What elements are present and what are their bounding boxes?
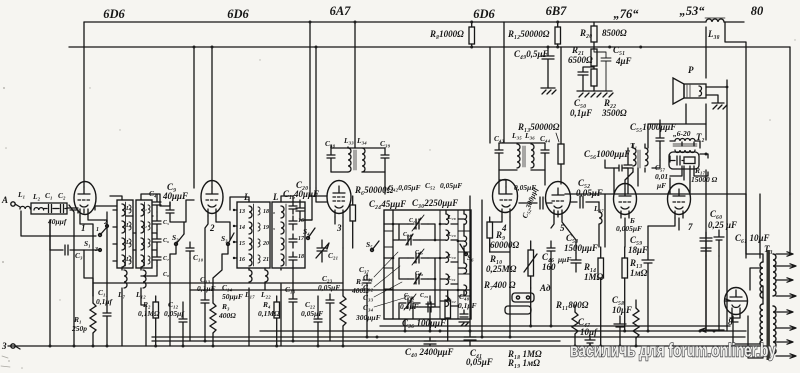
capacitor C15 bbox=[283, 189, 297, 214]
coil unit box C bbox=[233, 192, 270, 268]
switch S1 bbox=[84, 220, 108, 253]
svg-text:R₂₁: R₂₁ bbox=[571, 45, 584, 55]
trimmer C27 bbox=[408, 250, 428, 263]
capacitor C41 bbox=[464, 331, 476, 346]
coil L29 bbox=[446, 230, 456, 240]
svg-text:R₁₄: R₁₄ bbox=[583, 262, 596, 272]
resistor R22 bbox=[591, 66, 627, 118]
svg-text:S₁: S₁ bbox=[84, 239, 91, 248]
capacitor C58 bbox=[612, 295, 632, 346]
coil L30 bbox=[446, 252, 456, 262]
wire drop x74 bbox=[69, 205, 74, 346]
trimmer C26 bbox=[400, 232, 420, 245]
svg-text:6А7: 6А7 bbox=[330, 4, 352, 18]
svg-text:василичь для forum.onliner.by: василичь для forum.onliner.by bbox=[570, 341, 776, 361]
capacitor C52b bbox=[571, 178, 603, 208]
svg-text:C₄₂: C₄₂ bbox=[404, 293, 415, 302]
transformer T2 bbox=[670, 129, 708, 156]
wire S1 area bbox=[50, 212, 107, 296]
svg-text:C₃₁: C₃₁ bbox=[363, 273, 373, 282]
svg-text:C₂₉: C₂₉ bbox=[420, 293, 428, 299]
svg-text:R₁: R₁ bbox=[73, 315, 82, 324]
tube V5 6B7 bbox=[546, 182, 571, 234]
capacitor C47b bbox=[400, 293, 434, 331]
wire bus y326 bbox=[380, 325, 730, 327]
svg-text:13: 13 bbox=[239, 209, 245, 215]
wire coil box C D top bbox=[230, 196, 312, 258]
tube type labels row bbox=[103, 4, 764, 21]
capacitor C46 bbox=[542, 241, 571, 272]
svg-text:0,25МΩ: 0,25МΩ bbox=[486, 264, 517, 274]
coil L36 bbox=[531, 144, 534, 168]
svg-text:L₃₅: L₃₅ bbox=[511, 131, 522, 140]
svg-text:L₇: L₇ bbox=[117, 290, 126, 299]
resistor R14 bbox=[583, 247, 604, 346]
svg-text:R₂₀: R₂₀ bbox=[579, 28, 592, 38]
switch S2 bbox=[172, 233, 184, 246]
svg-text:C₃₈: C₃₈ bbox=[325, 139, 336, 148]
wire drop x50 bbox=[49, 220, 51, 346]
svg-text:3: 3 bbox=[336, 223, 342, 233]
svg-text:R₁₇: R₁₇ bbox=[694, 166, 706, 175]
svg-text:0,25 μF: 0,25 μF bbox=[708, 220, 737, 230]
capacitor C23 bbox=[318, 274, 340, 341]
IF transformer 1 assembly bbox=[325, 136, 391, 148]
svg-text:50μμF: 50μμF bbox=[222, 292, 243, 301]
capacitor C43 bbox=[495, 143, 503, 170]
svg-text:C₂: C₂ bbox=[58, 191, 66, 200]
ground speaker bbox=[712, 103, 727, 109]
pickup jack Ad bbox=[505, 283, 551, 314]
svg-text:C₄₉0,5μF: C₄₉0,5μF bbox=[514, 49, 549, 59]
capacitor C42 bbox=[388, 183, 421, 192]
wire bus y337 bbox=[152, 336, 745, 338]
svg-text:2: 2 bbox=[209, 223, 215, 233]
label C31-C34 column bbox=[355, 273, 381, 322]
wire tube1 cathode drops bbox=[80, 216, 107, 306]
svg-text:„76“: „76“ bbox=[614, 7, 640, 21]
svg-text:C₅₂: C₅₂ bbox=[425, 181, 436, 190]
svg-text:0,1МΩ: 0,1МΩ bbox=[258, 309, 280, 318]
svg-text:R₃: R₃ bbox=[221, 302, 230, 311]
wire osc bank internals bbox=[393, 210, 440, 331]
wire box A top to tube bbox=[110, 194, 170, 206]
svg-text:0,005μF: 0,005μF bbox=[616, 224, 642, 233]
svg-text:0,05μF: 0,05μF bbox=[466, 357, 493, 367]
svg-text:17: 17 bbox=[298, 236, 305, 242]
svg-text:60000Ω: 60000Ω bbox=[490, 240, 520, 250]
wire tube1 grid from antenna bbox=[78, 209, 84, 213]
svg-text:C₇: C₇ bbox=[163, 256, 169, 262]
svg-text:μμF: μμF bbox=[557, 255, 571, 264]
capacitor C50 bbox=[570, 67, 594, 118]
svg-text:6В7: 6В7 bbox=[546, 4, 568, 18]
svg-text:μF: μF bbox=[656, 181, 666, 190]
switch S5 bbox=[366, 240, 379, 252]
svg-text:₂: ₂ bbox=[145, 223, 147, 229]
svg-text:0,05μF: 0,05μF bbox=[440, 181, 462, 190]
wire drop x194 bbox=[193, 47, 195, 188]
trimmer C25 bbox=[408, 218, 428, 229]
svg-text:R₄: R₄ bbox=[262, 300, 271, 309]
svg-text:250р: 250р bbox=[71, 324, 87, 333]
capacitor C51 bbox=[594, 45, 632, 91]
svg-text:R₁₃50000Ω: R₁₃50000Ω bbox=[517, 122, 560, 132]
switch S4 bbox=[303, 227, 315, 240]
svg-text:160: 160 bbox=[542, 262, 556, 272]
svg-text:C₅₈: C₅₈ bbox=[612, 295, 624, 305]
coil unit box D bbox=[272, 192, 305, 268]
capacitor C10 bbox=[186, 242, 204, 262]
wire IFT2 connections bbox=[490, 22, 545, 194]
svg-text:C₂₄45μμF: C₂₄45μμF bbox=[369, 199, 406, 209]
tube V3 6A7 bbox=[327, 181, 351, 234]
svg-text:C₄₆: C₄₆ bbox=[542, 252, 554, 262]
tube V4 bbox=[493, 180, 518, 234]
variable capacitor C21 bbox=[316, 240, 338, 262]
svg-text:L: L bbox=[272, 192, 279, 202]
svg-text:0,1μF: 0,1μF bbox=[570, 108, 592, 118]
coil unit box A bbox=[113, 200, 133, 268]
tube V8 80 rectifier bbox=[725, 288, 748, 328]
capacitor C60 bbox=[700, 209, 737, 256]
svg-text:C₁₀: C₁₀ bbox=[193, 253, 204, 262]
capacitor C44 bbox=[541, 143, 549, 170]
svg-text:3500Ω: 3500Ω bbox=[601, 108, 627, 118]
svg-text:300μμF: 300μμF bbox=[355, 313, 381, 322]
coil L2 with box bbox=[31, 192, 67, 214]
resistor R12 bbox=[507, 22, 561, 47]
wire antenna to coil box A bbox=[70, 206, 117, 210]
resistor R11 bbox=[555, 300, 589, 346]
svg-text:C₄₇: C₄₇ bbox=[578, 317, 590, 327]
capacitor C12 bbox=[164, 300, 187, 346]
coil bank right col bbox=[464, 214, 467, 295]
resistor R1 zigzag bbox=[71, 296, 96, 346]
coil L37 bbox=[593, 202, 604, 247]
capacitor C47 bbox=[578, 317, 598, 346]
resistor R8 bbox=[429, 22, 475, 47]
capacitor C48 bbox=[458, 292, 477, 326]
speaker P bbox=[673, 65, 706, 104]
svg-text:C₄₂0,05μF: C₄₂0,05μF bbox=[388, 183, 421, 192]
capacitor C3 bbox=[50, 245, 84, 260]
wire tube5 leads bbox=[551, 211, 576, 253]
svg-text:6500Ω: 6500Ω bbox=[568, 55, 593, 65]
wire line y194 right bbox=[565, 193, 746, 195]
capacitor C22 bbox=[301, 296, 323, 346]
resistor R20 bbox=[579, 22, 627, 47]
ground terminal Z bbox=[1, 341, 20, 351]
svg-text:C₅₉: C₅₉ bbox=[630, 235, 642, 245]
capacitor C57 bbox=[655, 163, 668, 190]
svg-text:16: 16 bbox=[239, 257, 245, 263]
coil unit box B bbox=[136, 200, 152, 268]
coil L7 below box bbox=[117, 270, 127, 299]
label B and C value bbox=[616, 216, 642, 233]
svg-text:400Ω: 400Ω bbox=[218, 311, 236, 320]
svg-text:L₃₄: L₃₄ bbox=[356, 136, 367, 145]
choke L38 bbox=[705, 18, 725, 39]
coil L34 bbox=[362, 148, 365, 172]
oscillator trimmer bank box bbox=[384, 210, 471, 319]
junction dots osc bank bbox=[392, 223, 460, 292]
capacitor C61 bbox=[735, 233, 770, 243]
wire grid-cap drop tube1 bbox=[83, 22, 85, 187]
coil L12 below box bbox=[135, 270, 146, 299]
svg-text:14: 14 bbox=[239, 225, 245, 231]
svg-text:C₃: C₃ bbox=[75, 251, 83, 260]
resistor R2 box bbox=[138, 296, 160, 346]
wire T3 primary connections bbox=[733, 194, 790, 358]
svg-text:19: 19 bbox=[263, 225, 269, 231]
svg-text:18μF: 18μF bbox=[628, 245, 648, 255]
coil L32 bbox=[446, 296, 456, 306]
IF transformer 2 assembly labels bbox=[494, 131, 551, 143]
svg-text:6D6: 6D6 bbox=[473, 7, 495, 21]
svg-text:L₁: L₁ bbox=[17, 190, 25, 199]
svg-text:R₁₁800Ω: R₁₁800Ω bbox=[555, 300, 589, 310]
diode load box bbox=[669, 152, 699, 169]
capacitor C38 bbox=[327, 148, 335, 172]
wire AVC bus y290 bbox=[190, 289, 470, 291]
trimmer C28 bbox=[408, 271, 428, 284]
resistor R15 zigzag bbox=[633, 300, 639, 346]
svg-text:„6-20: „6-20 bbox=[673, 129, 691, 138]
capacitor C11 bbox=[96, 288, 114, 346]
svg-text:S₅: S₅ bbox=[366, 240, 373, 249]
svg-text:1: 1 bbox=[96, 227, 99, 233]
svg-text:Ад: Ад bbox=[539, 283, 551, 293]
svg-text:C₄₀ 2400μμF: C₄₀ 2400μμF bbox=[405, 347, 454, 357]
capacitor C37 bbox=[359, 265, 371, 337]
trimmer C35 bbox=[400, 293, 431, 312]
svg-text:C₅₁: C₅₁ bbox=[613, 45, 625, 55]
coil L28 bbox=[446, 214, 456, 224]
wire right verticals bbox=[706, 22, 790, 331]
svg-text:₈: ₈ bbox=[273, 209, 275, 215]
coil L35 bbox=[517, 144, 520, 168]
svg-text:S₄: S₄ bbox=[303, 227, 310, 236]
wire mid-right verticals bbox=[605, 148, 719, 331]
junction right bbox=[726, 86, 729, 89]
wire top bus A y22 bbox=[84, 21, 744, 23]
wire S2 C10 drops bbox=[170, 222, 190, 346]
svg-text:15: 15 bbox=[239, 241, 245, 247]
capacitor C13 bbox=[197, 275, 216, 341]
capacitor C1 bbox=[44, 191, 56, 213]
capacitor C9 label bbox=[162, 182, 188, 201]
coil L1 bbox=[17, 190, 30, 209]
svg-text:C₂₆: C₂₆ bbox=[403, 232, 411, 238]
svg-text:C₆: C₆ bbox=[163, 238, 169, 244]
capacitor column C5-C8 bbox=[153, 216, 169, 278]
svg-text:20: 20 bbox=[262, 241, 269, 247]
wire speaker to bus bbox=[706, 87, 727, 103]
svg-text:0,1μf: 0,1μf bbox=[96, 297, 114, 306]
svg-text:R₁₃: R₁₃ bbox=[629, 258, 642, 268]
wire detector cluster verticals bbox=[614, 104, 708, 194]
wire AVC bus y283 bbox=[93, 282, 343, 284]
svg-text:10μF: 10μF bbox=[612, 305, 632, 315]
svg-text:0,1МΩ: 0,1МΩ bbox=[138, 309, 160, 318]
svg-text:1мΩ: 1мΩ bbox=[630, 268, 648, 278]
wire ground bus y346 bbox=[8, 345, 770, 347]
resistor Rx box bbox=[445, 290, 451, 341]
svg-text:C₄₄: C₄₄ bbox=[540, 134, 551, 143]
wire antenna row bbox=[21, 208, 96, 236]
svg-text:C₂₁: C₂₁ bbox=[328, 251, 338, 260]
tube V6 76 bbox=[614, 184, 637, 219]
capacitor C56 bbox=[584, 149, 632, 168]
capacitor C52 bbox=[425, 181, 462, 190]
capacitor C20 label bbox=[293, 180, 319, 199]
tube V1 bbox=[74, 182, 96, 234]
svg-text:C₆₁ 10μF: C₆₁ 10μF bbox=[735, 233, 770, 243]
variable arrows rows bbox=[404, 215, 424, 310]
svg-text:R₈1000Ω: R₈1000Ω bbox=[429, 29, 464, 39]
wire mid verticals left of tube4 bbox=[470, 196, 482, 337]
svg-text:C₅₂: C₅₂ bbox=[578, 178, 590, 188]
svg-text:21: 21 bbox=[262, 257, 269, 263]
svg-text:C₅: C₅ bbox=[163, 220, 169, 226]
svg-text:0,1μF: 0,1μF bbox=[400, 302, 419, 311]
junction dots buses bbox=[49, 21, 716, 348]
svg-text:P: P bbox=[688, 65, 694, 75]
resistor R21 bbox=[568, 45, 597, 66]
svg-text:C₆₀: C₆₀ bbox=[710, 209, 722, 219]
svg-text:R₁₀: R₁₀ bbox=[489, 254, 502, 264]
svg-text:₁: ₁ bbox=[145, 206, 147, 212]
svg-text:R₇400 Ω: R₇400 Ω bbox=[483, 280, 516, 290]
svg-text:R₉: R₉ bbox=[495, 230, 505, 240]
wire bus y331 bbox=[260, 330, 746, 332]
wire bus y341 bbox=[152, 340, 560, 342]
svg-text:C₃₆ 100μμF: C₃₆ 100μμF bbox=[402, 318, 446, 328]
capacitor C14 label bbox=[222, 283, 243, 301]
svg-text:40μμF: 40μμF bbox=[162, 191, 188, 201]
resistor R5 zigzag bbox=[340, 248, 369, 346]
wire tube4 bottoms bbox=[490, 217, 551, 337]
svg-text:0,01: 0,01 bbox=[655, 172, 668, 181]
capacitor C4 bbox=[149, 189, 161, 212]
switch S6 bbox=[460, 244, 474, 262]
tube V2 bbox=[201, 181, 223, 234]
svg-text:₉: ₉ bbox=[273, 225, 275, 231]
svg-text:„53“: „53“ bbox=[680, 4, 706, 18]
svg-text:1500μμF: 1500μμF bbox=[564, 243, 598, 253]
wire C9 connections bbox=[166, 200, 194, 222]
coil L31 bbox=[446, 274, 456, 284]
resistor R13 bbox=[517, 47, 564, 184]
resistor R16 box bbox=[622, 247, 648, 331]
svg-text:C₃₀2250μμF: C₃₀2250μμF bbox=[412, 198, 458, 208]
svg-text:L: L bbox=[243, 192, 250, 202]
svg-text:6D6: 6D6 bbox=[227, 7, 249, 21]
resistor R17 label bbox=[691, 166, 718, 184]
svg-text:R₂₂: R₂₂ bbox=[603, 98, 616, 108]
svg-text:40μμF: 40μμF bbox=[293, 189, 319, 199]
capacitor C59 bbox=[628, 235, 654, 272]
wire T3 secondary taps with arrows bbox=[776, 252, 796, 358]
svg-text:6D6: 6D6 bbox=[103, 7, 125, 21]
tube V7 53 bbox=[668, 184, 694, 233]
svg-text:C₂₃: C₂₃ bbox=[322, 274, 333, 283]
capacitor C52 coupling bbox=[519, 185, 552, 220]
switch S3 bbox=[221, 233, 234, 246]
capacitor C19 bbox=[285, 285, 297, 341]
detector transformer T1 bbox=[630, 141, 648, 168]
wire det to tube6 bbox=[605, 160, 614, 168]
svg-text:C₅₆1000μμF: C₅₆1000μμF bbox=[584, 149, 630, 159]
svg-text:S₃: S₃ bbox=[221, 234, 228, 243]
svg-text:0,05μF: 0,05μF bbox=[301, 309, 323, 318]
svg-text:18: 18 bbox=[298, 254, 304, 260]
wire C20 connections bbox=[296, 200, 312, 220]
svg-text:S₂: S₂ bbox=[172, 233, 179, 242]
capacitor C40 bbox=[424, 337, 436, 346]
capacitor C55 bbox=[630, 122, 676, 148]
svg-text:З: З bbox=[1, 341, 7, 351]
resistor R3 zigzag bbox=[210, 296, 236, 346]
svg-text:C₈: C₈ bbox=[163, 272, 169, 278]
svg-text:L₃₆: L₃₆ bbox=[524, 131, 535, 140]
resistor R4 box bbox=[258, 296, 280, 346]
svg-text:C₄₃: C₄₃ bbox=[494, 134, 505, 143]
svg-text:R₁₉ 1мΩ: R₁₉ 1мΩ bbox=[507, 358, 540, 368]
wire drop pair 6A7 bbox=[310, 22, 316, 188]
wire IFT1 connections bbox=[331, 145, 385, 194]
resistor R9 bbox=[487, 217, 520, 252]
antenna terminal A bbox=[1, 195, 20, 207]
svg-text:C₁: C₁ bbox=[45, 191, 53, 200]
potentiometer R10 bbox=[486, 241, 537, 288]
svg-text:L₂: L₂ bbox=[32, 192, 41, 201]
svg-text:А: А bbox=[1, 195, 8, 205]
capacitor C39 bbox=[381, 148, 389, 172]
svg-text:C₃₄: C₃₄ bbox=[363, 303, 374, 312]
svg-text:10μf: 10μf bbox=[580, 327, 598, 337]
capacitor column C16-C18 in box D bbox=[289, 216, 305, 266]
wire tube3 leads bbox=[310, 188, 343, 248]
svg-text:L₂₂: L₂₂ bbox=[260, 290, 271, 299]
ground R21R22 cluster bbox=[577, 91, 613, 97]
wire drop IFT1 feed bbox=[354, 22, 356, 147]
svg-text:L₁₇: L₁₇ bbox=[244, 290, 255, 299]
arrow tap left lead bbox=[700, 299, 747, 332]
wire tube2 bottoms bbox=[205, 216, 230, 294]
capacitor C53 bbox=[564, 233, 598, 272]
wire osc bank extra rows bbox=[384, 210, 464, 306]
coil L22 below box bbox=[260, 268, 271, 299]
capacitor C49 bbox=[514, 47, 554, 88]
svg-text:4μF: 4μF bbox=[615, 56, 632, 66]
svg-text:0,1μF: 0,1μF bbox=[458, 301, 477, 310]
wire drop tube2 bbox=[211, 47, 213, 187]
coil L17 below box bbox=[244, 270, 255, 299]
svg-text:C₃₉: C₃₉ bbox=[380, 139, 391, 148]
svg-text:16: 16 bbox=[298, 218, 304, 224]
svg-text:C₃₃: C₃₃ bbox=[363, 293, 374, 302]
wire coil box C D bottoms bbox=[213, 244, 293, 346]
svg-text:L₃₃: L₃₃ bbox=[343, 136, 354, 145]
svg-text:L₃₈: L₃₈ bbox=[707, 29, 720, 39]
wire coil box A B drops bbox=[122, 212, 157, 346]
resistor R6 box bbox=[350, 185, 394, 248]
stray pencil mark bottom left bbox=[1, 356, 10, 367]
core IFT2 bbox=[523, 146, 525, 167]
svg-text:C₂₂: C₂₂ bbox=[305, 300, 316, 309]
